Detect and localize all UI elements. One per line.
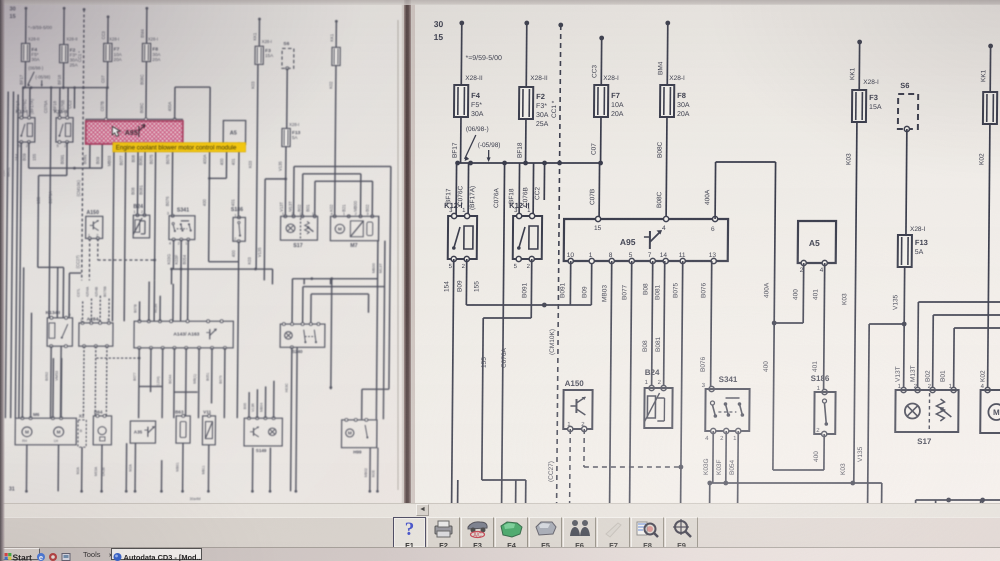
wire BF17 to K12-I pin3 bbox=[455, 163, 457, 216]
wire ground stubs bbox=[170, 269, 173, 284]
fuse F8 30A 20A bbox=[142, 43, 150, 61]
svg-text:F4: F4 bbox=[471, 91, 481, 100]
node top-feed dot CC1 bbox=[83, 8, 86, 11]
wire dashed link to B075 bbox=[98, 259, 155, 261]
svg-text:30A: 30A bbox=[536, 112, 549, 119]
svg-text:S341: S341 bbox=[719, 375, 738, 384]
svg-text:MB01: MB01 bbox=[176, 462, 180, 471]
svg-text:X28-I: X28-I bbox=[148, 37, 158, 42]
svg-text:B051: B051 bbox=[206, 373, 210, 381]
wire K02 long bbox=[988, 124, 990, 390]
wire 401 from A5 bbox=[237, 144, 240, 217]
svg-text:A5: A5 bbox=[230, 131, 237, 137]
svg-text:155: 155 bbox=[473, 281, 480, 292]
svg-text:M2A: M2A bbox=[129, 464, 133, 472]
wire BF18 upper bbox=[63, 8, 66, 44]
svg-text:CC1 *: CC1 * bbox=[77, 51, 82, 62]
svg-text:31: 31 bbox=[9, 487, 15, 493]
wire KK1 upper bbox=[858, 42, 860, 90]
wire B01 feed bbox=[313, 181, 316, 216]
svg-text:401: 401 bbox=[230, 199, 235, 207]
svg-text:1: 1 bbox=[48, 312, 50, 317]
svg-text:B076: B076 bbox=[700, 282, 707, 298]
wire B08C upper bbox=[145, 8, 148, 43]
svg-text:V11: V11 bbox=[203, 410, 211, 415]
svg-text:4: 4 bbox=[662, 225, 666, 232]
svg-text:A35: A35 bbox=[134, 430, 143, 435]
fuse F13 5A bbox=[898, 235, 912, 267]
svg-text:M7: M7 bbox=[350, 243, 357, 249]
wire 400 from A5 bbox=[802, 263, 805, 323]
svg-text:4: 4 bbox=[820, 267, 824, 274]
svg-text:F13: F13 bbox=[915, 238, 928, 247]
svg-text:1: 1 bbox=[133, 209, 135, 214]
wire ground stubs bbox=[709, 483, 711, 510]
svg-text:M: M bbox=[338, 227, 342, 232]
svg-text:V13T: V13T bbox=[279, 202, 284, 212]
wire ground bus bbox=[710, 482, 882, 484]
svg-text:BF18: BF18 bbox=[52, 100, 57, 110]
op-amp A95 control module bbox=[86, 119, 182, 143]
wire V135 branch bbox=[265, 178, 286, 180]
svg-text:B02: B02 bbox=[925, 370, 932, 382]
right page paper bbox=[415, 4, 1000, 503]
svg-text:V135: V135 bbox=[278, 161, 283, 171]
wire K134II outs bbox=[49, 346, 52, 418]
svg-text:M451: M451 bbox=[6, 167, 11, 176]
svg-text:400A: 400A bbox=[704, 189, 711, 205]
svg-text:30A: 30A bbox=[69, 58, 77, 63]
svg-text:154: 154 bbox=[0, 169, 5, 176]
wire BF18 to bus bbox=[525, 119, 527, 163]
svg-text:M2E: M2E bbox=[372, 469, 376, 477]
svg-text:K03: K03 bbox=[846, 153, 853, 165]
svg-text:400: 400 bbox=[763, 361, 770, 372]
svg-text:30: 30 bbox=[9, 7, 15, 13]
svg-text:401: 401 bbox=[812, 289, 819, 300]
svg-text:(BF17A): (BF17A) bbox=[469, 186, 476, 210]
svg-text:30A: 30A bbox=[677, 102, 690, 109]
fuse F4/F5 30A bbox=[21, 43, 29, 61]
wire BF18 to K12-II pin3 bbox=[518, 163, 520, 216]
wire M13T feed bbox=[292, 166, 295, 216]
wire C076C to K12-I pin1 bbox=[467, 163, 469, 216]
autodata task button bbox=[111, 548, 202, 560]
svg-text:B08C: B08C bbox=[139, 74, 144, 84]
svg-text:B06: B06 bbox=[243, 403, 247, 409]
svg-text:2: 2 bbox=[178, 241, 180, 246]
wire K02 long bbox=[335, 66, 336, 217]
svg-text:B08: B08 bbox=[131, 187, 136, 195]
wire filler h1 bbox=[139, 385, 162, 387]
svg-text:*=9/59-5/00: *=9/59-5/00 bbox=[28, 25, 52, 30]
svg-text:20A: 20A bbox=[677, 111, 690, 118]
svg-text:BM4: BM4 bbox=[657, 61, 664, 75]
svg-text:C07: C07 bbox=[100, 75, 105, 83]
wire K03F bbox=[180, 240, 183, 269]
svg-text:K02: K02 bbox=[980, 370, 987, 382]
svg-text:M: M bbox=[57, 430, 61, 435]
lamp S240 panel bbox=[280, 324, 325, 347]
wire CC2 stub bbox=[73, 88, 76, 109]
svg-text:(-05/98): (-05/98) bbox=[35, 75, 51, 80]
svg-text:30a4M: 30a4M bbox=[190, 497, 201, 501]
svg-text:1: 1 bbox=[343, 211, 345, 216]
svg-text:B64: B64 bbox=[94, 410, 103, 415]
wire V135 to S17 pin1 bbox=[284, 179, 287, 216]
svg-text:10A: 10A bbox=[114, 52, 122, 57]
wire left edge run 2 bbox=[11, 92, 14, 419]
svg-text:A/C: A/C bbox=[473, 533, 482, 539]
F7 disabled button bbox=[597, 517, 630, 548]
svg-text:4294A: 4294A bbox=[86, 286, 90, 297]
wire B075 out bbox=[155, 143, 156, 259]
wire C076B to K12-II pin1 bbox=[532, 163, 534, 216]
svg-text:(06/98-): (06/98-) bbox=[28, 66, 44, 71]
wire CC2 stub bbox=[543, 163, 545, 200]
wire C076A long bbox=[49, 88, 51, 318]
svg-text:BF17: BF17 bbox=[19, 74, 24, 84]
svg-text:K03G: K03G bbox=[166, 254, 171, 265]
svg-text:155: 155 bbox=[36, 196, 41, 204]
wire 154 bbox=[452, 259, 454, 503]
node top-feed dot K02 bbox=[988, 44, 993, 49]
wire M6 ground stubs bbox=[25, 445, 28, 491]
svg-text:400A: 400A bbox=[763, 282, 770, 298]
svg-text:3: 3 bbox=[366, 211, 368, 216]
svg-text:2: 2 bbox=[141, 209, 143, 214]
svg-text:5A: 5A bbox=[292, 135, 298, 140]
tools menu bbox=[83, 550, 113, 559]
svg-text:V13T: V13T bbox=[895, 366, 902, 382]
svg-text:155: 155 bbox=[481, 357, 488, 368]
node top-feed dot KK1 bbox=[857, 40, 862, 45]
svg-text:S186: S186 bbox=[811, 374, 830, 383]
wire B076 out bbox=[171, 143, 174, 216]
F4 engine button bbox=[495, 517, 528, 548]
svg-text:15A: 15A bbox=[869, 104, 882, 111]
svg-text:(CC27): (CC27) bbox=[548, 461, 555, 482]
fuse F30 partial bbox=[332, 47, 340, 65]
wire misc stub bbox=[125, 443, 128, 491]
node bus junctions bbox=[22, 86, 25, 89]
wire 400A pin6 loop bbox=[714, 162, 716, 219]
wire A150 pin2 dashed bbox=[583, 429, 585, 467]
wire CC1 dashed bbox=[82, 9, 84, 280]
svg-text:B08: B08 bbox=[131, 154, 136, 162]
svg-text:B076: B076 bbox=[165, 196, 170, 206]
svg-text:F7: F7 bbox=[611, 91, 620, 100]
wire S6 to F13 bbox=[285, 68, 288, 128]
highlight A95 selection bbox=[86, 121, 246, 152]
svg-text:X28-I: X28-I bbox=[109, 37, 119, 42]
svg-text:C076A: C076A bbox=[501, 347, 508, 368]
wire C076B to K12-II pin1 bbox=[67, 88, 70, 118]
svg-text:F3*: F3* bbox=[70, 53, 77, 58]
wire BF17 to bus bbox=[460, 117, 462, 163]
wire M13T feed bbox=[917, 302, 920, 390]
svg-text:K134II: K134II bbox=[46, 310, 61, 316]
box S149 bbox=[244, 418, 282, 446]
wire MB03 out bbox=[609, 261, 612, 561]
node top-feed dot C07 bbox=[107, 15, 110, 18]
svg-text:H99: H99 bbox=[353, 449, 362, 454]
wire C076A long bbox=[501, 163, 505, 561]
svg-text:8: 8 bbox=[609, 252, 613, 259]
svg-text:B075: B075 bbox=[148, 154, 153, 164]
toolbar bbox=[0, 517, 1000, 550]
svg-text:S6: S6 bbox=[900, 81, 909, 90]
op-amp A5 module bbox=[798, 221, 836, 263]
svg-text:B079: B079 bbox=[219, 375, 223, 383]
svg-text:S17: S17 bbox=[917, 437, 932, 446]
wire K134II extra feed bbox=[68, 273, 71, 318]
svg-text:B08: B08 bbox=[642, 340, 649, 352]
left page paper bbox=[2, 3, 402, 506]
svg-text:25A: 25A bbox=[69, 63, 77, 68]
node top-feed dot K02 bbox=[335, 20, 338, 23]
svg-text:M: M bbox=[993, 408, 1000, 417]
svg-text:400: 400 bbox=[813, 451, 820, 462]
svg-text:3: 3 bbox=[167, 211, 169, 216]
svg-text:CC2: CC2 bbox=[67, 100, 72, 109]
svg-text:KK1: KK1 bbox=[980, 69, 987, 82]
svg-text:M13T: M13T bbox=[288, 201, 293, 212]
svg-text:30A: 30A bbox=[31, 57, 39, 62]
svg-text:B09: B09 bbox=[581, 286, 588, 298]
wire S240 feeds bbox=[291, 279, 294, 324]
box A35 bbox=[130, 421, 155, 443]
svg-text:3: 3 bbox=[57, 111, 59, 116]
wire bottom stub row bbox=[160, 460, 163, 491]
wire M7 outputs bbox=[376, 241, 378, 420]
svg-text:K03: K03 bbox=[247, 257, 252, 265]
wire left edge run 3 bbox=[15, 94, 18, 418]
panel divider bbox=[404, 0, 411, 512]
svg-text:MB(1): MB(1) bbox=[193, 374, 197, 383]
quicklaunch icons bbox=[36, 549, 76, 559]
svg-text:B02: B02 bbox=[365, 204, 370, 212]
svg-text:BM4: BM4 bbox=[140, 29, 145, 38]
svg-text:B21: B21 bbox=[341, 204, 346, 212]
svg-text:Engine coolant blower motor co: Engine coolant blower motor control modu… bbox=[116, 145, 237, 152]
node top-feed dot CC1 bbox=[558, 23, 563, 28]
wire K03G extension bbox=[172, 284, 175, 321]
wire main bus 06/98 bbox=[458, 162, 601, 164]
fuse F30 partial bbox=[983, 92, 997, 124]
svg-text:B076: B076 bbox=[700, 356, 707, 372]
svg-text:7: 7 bbox=[648, 252, 652, 259]
svg-text:154: 154 bbox=[14, 153, 19, 161]
svg-text:MB00: MB00 bbox=[371, 263, 376, 273]
wire B091 out bbox=[88, 143, 91, 168]
wire BF18 to K12-II pin3 bbox=[58, 88, 61, 118]
svg-text:CC3: CC3 bbox=[591, 65, 598, 78]
wire B02 feed bbox=[301, 174, 304, 217]
svg-text:X28-II: X28-II bbox=[530, 75, 548, 82]
svg-text:400A: 400A bbox=[167, 102, 172, 112]
node bus junctions bbox=[455, 161, 460, 166]
svg-text:15A: 15A bbox=[265, 53, 273, 58]
wire K134II feeds bbox=[514, 480, 517, 561]
fuse F2/F3 30A 25A bbox=[59, 45, 67, 63]
wire S240 feeds bbox=[914, 500, 917, 561]
wire C07B to A95 pin15 bbox=[105, 88, 108, 120]
wire BF18 to bus bbox=[62, 63, 65, 88]
svg-text:K02: K02 bbox=[328, 81, 333, 89]
svg-text:B092: B092 bbox=[44, 372, 49, 381]
svg-text:(CM10K): (CM10K) bbox=[549, 329, 556, 355]
svg-text:1: 1 bbox=[26, 111, 28, 116]
svg-text:154: 154 bbox=[443, 281, 450, 292]
svg-text:X1: X1 bbox=[79, 414, 85, 419]
wire H99 stubs bbox=[369, 448, 372, 492]
svg-text:M6: M6 bbox=[33, 412, 40, 417]
box H99 bbox=[341, 420, 376, 448]
svg-text:5: 5 bbox=[629, 252, 633, 259]
svg-text:M13T: M13T bbox=[378, 263, 383, 273]
wire B09 link bbox=[27, 142, 30, 168]
svg-text:K03F: K03F bbox=[174, 254, 179, 264]
wire K03F bbox=[725, 431, 727, 483]
wire K02 upper bbox=[989, 46, 991, 92]
svg-text:X28-I: X28-I bbox=[863, 79, 879, 86]
svg-text:K02: K02 bbox=[329, 204, 334, 212]
wire A150 pin1 dashed bbox=[569, 429, 572, 503]
wire right loop down bbox=[389, 166, 391, 389]
wire V11 drop bbox=[207, 445, 210, 491]
svg-text:V135: V135 bbox=[857, 446, 864, 462]
wire B64 drop bbox=[100, 445, 103, 491]
wire B091 out bbox=[569, 261, 571, 305]
svg-text:K03: K03 bbox=[248, 160, 253, 168]
F9 pan button bbox=[665, 517, 698, 548]
svg-text:A5: A5 bbox=[809, 238, 820, 248]
wire B081 out bbox=[664, 261, 665, 386]
wire 155 link bbox=[530, 259, 533, 318]
svg-text:M03A: M03A bbox=[94, 466, 98, 476]
svg-text:X28-I: X28-I bbox=[262, 39, 272, 44]
wire B054 bbox=[737, 431, 738, 561]
fuse F4/F5 30A bbox=[454, 85, 468, 117]
svg-text:e: e bbox=[39, 553, 43, 561]
svg-text:B077: B077 bbox=[621, 284, 628, 300]
svg-text:S186: S186 bbox=[231, 207, 243, 213]
svg-text:B081: B081 bbox=[138, 185, 143, 195]
wire K03 long bbox=[256, 64, 258, 269]
wire K03G bbox=[172, 240, 175, 269]
F5 gearbox button bbox=[529, 517, 562, 548]
svg-text:B09: B09 bbox=[95, 156, 100, 164]
svg-text:B08C: B08C bbox=[139, 103, 144, 113]
fuse F2/F3 30A 25A bbox=[519, 87, 533, 119]
wire A143 feeds bbox=[138, 301, 141, 321]
svg-text:X28-I: X28-I bbox=[669, 75, 685, 82]
wire 155 link bbox=[65, 142, 68, 175]
wire V135 bbox=[903, 267, 905, 324]
svg-text:C07L: C07L bbox=[77, 288, 81, 296]
wire A143 outs bbox=[137, 348, 140, 418]
svg-text:A150: A150 bbox=[86, 210, 99, 216]
box A143/A163 bbox=[134, 321, 233, 348]
svg-text:K03G: K03G bbox=[703, 458, 710, 475]
wire B08 out bbox=[136, 143, 139, 214]
node top-feed dot BF18 bbox=[524, 21, 529, 26]
wire B08 out bbox=[652, 261, 653, 386]
svg-text:15: 15 bbox=[434, 32, 444, 42]
scrollbar strip bbox=[0, 503, 1000, 518]
wire 154 bbox=[20, 142, 21, 280]
svg-text:X28-II: X28-II bbox=[66, 37, 77, 42]
F6 people button bbox=[563, 517, 596, 548]
wire K02 upper bbox=[335, 21, 338, 47]
svg-text:(CM10K): (CM10K) bbox=[76, 179, 81, 196]
svg-text:B08C: B08C bbox=[656, 191, 663, 208]
svg-text:20A: 20A bbox=[152, 57, 160, 62]
svg-text:B075: B075 bbox=[672, 282, 679, 298]
wire C076C to K12-I pin1 bbox=[28, 88, 31, 118]
wire mid dashed bus bbox=[96, 357, 139, 359]
svg-text:Start: Start bbox=[13, 553, 33, 561]
wire C07 upper bbox=[107, 17, 110, 44]
svg-text:MB11: MB11 bbox=[201, 465, 205, 474]
wire B02 feed bbox=[932, 315, 935, 390]
svg-text:CC3: CC3 bbox=[101, 31, 106, 40]
svg-text:X28-II: X28-II bbox=[465, 75, 483, 82]
F2 print button bbox=[427, 517, 460, 548]
svg-text:RH: RH bbox=[22, 439, 27, 443]
wire B077 out bbox=[124, 143, 126, 321]
svg-text:KK1: KK1 bbox=[329, 33, 334, 41]
svg-text:(BF17A): (BF17A) bbox=[29, 98, 34, 114]
svg-text:4294B: 4294B bbox=[94, 286, 98, 297]
photo left edge bbox=[0, 0, 5, 561]
svg-text:(CC27): (CC27) bbox=[75, 255, 80, 269]
svg-text:14: 14 bbox=[660, 252, 668, 259]
svg-text:BF17: BF17 bbox=[452, 142, 459, 158]
svg-text:B01: B01 bbox=[940, 370, 947, 382]
wire BF17 upper bbox=[460, 23, 463, 85]
svg-text:LH: LH bbox=[54, 439, 59, 443]
svg-text:M: M bbox=[25, 430, 29, 435]
wire BF18 upper bbox=[525, 23, 528, 87]
svg-text:A150: A150 bbox=[565, 379, 585, 388]
svg-text:V135: V135 bbox=[892, 294, 899, 310]
svg-text:X28-I: X28-I bbox=[603, 75, 619, 82]
svg-text:(1234): (1234) bbox=[156, 376, 160, 386]
svg-text:30: 30 bbox=[434, 19, 444, 29]
wire B01 feed bbox=[953, 328, 956, 390]
svg-text:H03C: H03C bbox=[285, 383, 289, 392]
svg-text:MB03: MB03 bbox=[107, 155, 112, 166]
svg-text:MB04: MB04 bbox=[259, 403, 263, 412]
svg-text:C07B: C07B bbox=[100, 101, 105, 111]
svg-text:V13R: V13R bbox=[251, 403, 255, 412]
wire K03G bbox=[712, 431, 714, 483]
wire C07 to bus bbox=[106, 62, 109, 88]
svg-text:M13T: M13T bbox=[910, 365, 917, 382]
wire B09 drop to A95 pin1 bbox=[101, 143, 104, 168]
svg-text:B24: B24 bbox=[645, 368, 660, 377]
svg-text:15: 15 bbox=[9, 14, 15, 20]
svg-text:S17: S17 bbox=[293, 243, 303, 249]
svg-text:S341: S341 bbox=[177, 208, 189, 214]
wire V135 to S17 pin1 bbox=[903, 324, 906, 390]
svg-text:BF18: BF18 bbox=[517, 142, 524, 158]
node top-feed dot B08C bbox=[145, 7, 148, 10]
svg-text:10: 10 bbox=[567, 252, 575, 259]
wire M6 feeds bbox=[22, 267, 23, 418]
